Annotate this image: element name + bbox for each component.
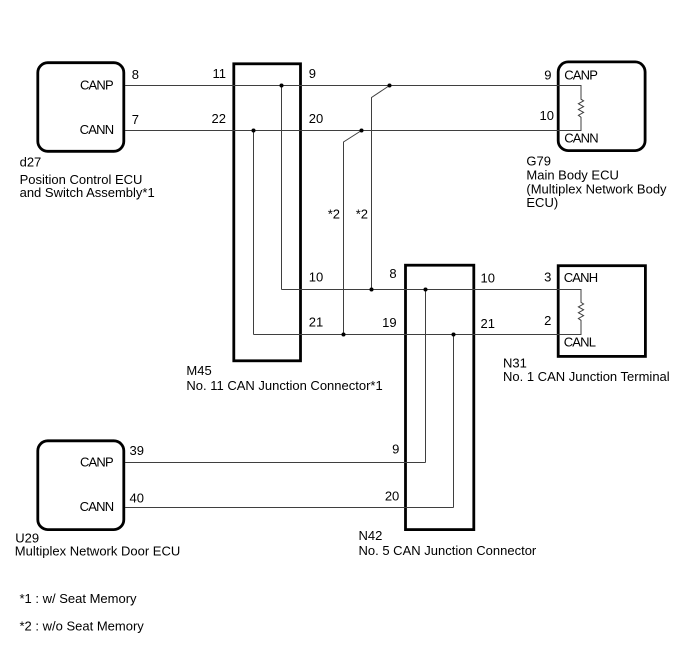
internal wire B (M45, pin 22/20 to pin 21) [253,131,255,335]
ECU U29 box (Multiplex Network Door ECU) [38,441,124,530]
svg-text:8: 8 [132,67,139,82]
svg-text:10: 10 [540,108,554,123]
wire W2 CANN: d27 pin 7 to M45 pin 22/20 to G79 pin 10 [125,130,557,132]
svg-text:CANP: CANP [564,67,597,82]
svg-text:CANN: CANN [564,130,598,145]
svg-text:9: 9 [392,441,399,456]
svg-text:CANP: CANP [80,78,113,93]
svg-text:CANP: CANP [80,455,113,470]
branch wire SW1 (w/o seat memory bypass, CANP) [372,86,390,290]
svg-text:No. 5 CAN Junction Connector: No. 5 CAN Junction Connector [359,543,537,558]
junction node: wire A on W1 [280,84,284,88]
svg-text:39: 39 [130,443,144,458]
junction node: wire C on W3 [424,288,428,292]
wire W4: M45 pin 21 to N42 pin 19/21 to N31 pin 2 [254,334,558,336]
svg-text:ECU): ECU) [526,195,558,210]
wire W1 CANP: d27 pin 8 to M45 pin 11/9 to G79 pin 9 [125,85,557,87]
svg-text:9: 9 [544,67,551,82]
svg-text:3: 3 [544,270,551,285]
svg-text:G79: G79 [526,154,551,169]
svg-text:CANL: CANL [564,335,596,350]
svg-text:*2: *2 [356,207,368,222]
svg-text:N42: N42 [359,528,383,543]
svg-text:20: 20 [309,111,323,126]
wire W5: U29 pin 39 to N42 pin 9 [125,462,426,464]
svg-text:10: 10 [309,270,323,285]
svg-text:21: 21 [309,315,323,330]
wire W3: M45 pin 10 to N42 pin 8/10 to N31 pin 3 [282,289,558,291]
svg-text:10: 10 [481,271,495,286]
svg-text:and Switch Assembly*1: and Switch Assembly*1 [20,185,155,200]
internal wire with terminating resistor (N31) [557,290,584,335]
svg-text:19: 19 [382,315,396,330]
svg-text:*1 : w/ Seat Memory: *1 : w/ Seat Memory [20,591,138,606]
svg-text:11: 11 [213,66,227,81]
svg-text:Multiplex Network Door ECU: Multiplex Network Door ECU [15,544,180,559]
junction node: SW1 on W3 [370,288,374,292]
svg-text:40: 40 [130,490,144,505]
junction connector N42 box [406,265,474,529]
svg-text:21: 21 [481,316,495,331]
ECU d27 box (Position Control ECU and Switch Assembly) [38,63,124,152]
svg-text:Main Body ECU: Main Body ECU [526,168,618,183]
svg-text:N31: N31 [503,355,527,370]
svg-text:*2: *2 [328,207,340,222]
ECU G79 box (Main Body ECU) [558,62,645,151]
junction node: SW2 on W4 [342,333,346,337]
junction connector M45 box [234,64,301,361]
junction node: SW1 on W1 [388,84,392,88]
svg-text:d27: d27 [20,155,42,170]
svg-text:No. 1 CAN Junction Terminal: No. 1 CAN Junction Terminal [503,369,670,384]
svg-text:CANN: CANN [80,122,114,137]
internal wire C (N42, pin 8/10 to pin 9) [425,290,427,463]
junction terminal N31 box [558,266,645,357]
svg-text:*2 : w/o Seat Memory: *2 : w/o Seat Memory [20,619,145,634]
svg-text:20: 20 [385,489,399,504]
internal wire A (M45, pin 11/9 to pin 10) [281,86,283,290]
svg-text:2: 2 [544,313,551,328]
junction node: wire D on W4 [452,333,456,337]
junction node: SW2 on W2 [360,129,364,133]
internal wire D (N42, pin 19/21 to pin 20) [453,335,455,508]
svg-text:CANH: CANH [564,270,598,285]
svg-text:CANN: CANN [80,499,114,514]
svg-text:8: 8 [389,266,396,281]
svg-text:22: 22 [212,111,226,126]
svg-text:9: 9 [309,66,316,81]
branch wire SW2 (w/o seat memory bypass, CANN) [344,131,362,335]
wire W6: U29 pin 40 to N42 pin 20 [125,507,454,509]
internal wire with terminating resistor (G79) [557,86,584,131]
svg-text:No. 11 CAN Junction Connector*: No. 11 CAN Junction Connector*1 [186,378,382,393]
svg-text:7: 7 [132,112,139,127]
junction node: wire B on W2 [252,129,256,133]
svg-text:M45: M45 [186,363,211,378]
